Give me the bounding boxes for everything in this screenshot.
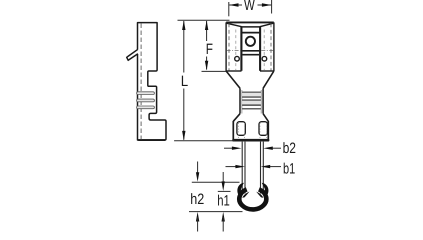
dim b2 left line and arrow: [224, 147, 233, 149]
dim L arrow up: [182, 20, 185, 30]
front view side dimple right: [262, 56, 267, 61]
front view taper right: [263, 71, 274, 88]
svg-text:F: F: [206, 41, 213, 58]
crimp ring left curl: [237, 183, 244, 197]
front view top edge: [226, 21, 274, 23]
front view side dimple left: [235, 56, 240, 61]
front view outer walls upper box: [226, 22, 274, 71]
front view inner dashed line left: [235, 30, 237, 71]
crimp ring right overlap sliver: [256, 192, 263, 198]
front view bottom edge of upper box: [226, 70, 241, 72]
front view flare bridge line 1: [241, 26, 260, 28]
side view body outline: [138, 23, 167, 140]
crimp ring left overlap sliver: [242, 192, 249, 198]
dim L bottom extension: [174, 140, 234, 142]
front view insulation box right wall: [267, 121, 269, 140]
front view dotted marks under wings: [238, 123, 266, 139]
dim W extension right: [271, 0, 273, 14]
dim h1 top stem and arrow: [222, 172, 224, 186]
svg-text:b1: b1: [283, 160, 295, 177]
front view neck wall left: [239, 88, 241, 113]
front view contact dimple circle: [246, 37, 255, 46]
dim F arrow down: [205, 61, 208, 71]
h2 top extension line: [192, 181, 240, 183]
front view insulation box left wall: [232, 121, 234, 140]
front view dashed bend line right: [270, 24, 272, 71]
front view dashed bend line left: [228, 24, 230, 71]
dim W arrow right: [262, 3, 272, 6]
front view insulation box bottom bar: [234, 139, 269, 142]
crimp ring main C: [239, 189, 266, 209]
front view taper left: [226, 71, 240, 88]
front view dash-dot centre line: [227, 50, 274, 52]
svg-text:L: L: [181, 73, 188, 90]
dim L line: [183, 21, 185, 140]
front view band line 2: [242, 54, 259, 56]
side view lance tab: [127, 49, 138, 60]
leg lines left: [242, 142, 245, 194]
front view crimp wing rect left: [237, 122, 245, 136]
front view inner dashed line right: [263, 30, 265, 71]
leg lines right: [261, 142, 264, 194]
dim b1 left line and arrow: [226, 166, 237, 168]
front view flare bridge line 2: [242, 32, 260, 34]
side view dashed bend line: [140, 24, 142, 140]
dim W extension left: [228, 2, 230, 16]
front view flare diagonals: [227, 23, 274, 27]
front view shoulder left: [233, 114, 240, 122]
side view rib 3: [137, 106, 155, 109]
bottom shared extension line: [189, 211, 243, 213]
dim b2 right arrow and leader: [263, 147, 273, 150]
side view foot bottom emphasis: [138, 139, 165, 141]
dim h2 bottom arrow and stem: [196, 212, 199, 222]
crimp ring right curl: [262, 183, 269, 197]
dim b1 right arrow and leader: [261, 165, 271, 168]
front view shoulder right: [263, 114, 268, 122]
dim W arrow left: [229, 3, 239, 6]
dim F bottom extension: [202, 70, 227, 72]
side view rib 1: [137, 92, 155, 95]
front view neck wall right: [262, 88, 264, 113]
front view inner wall left: [240, 27, 242, 71]
dim F arrow up: [205, 20, 208, 30]
side view rib 2: [137, 99, 155, 102]
dim F line: [206, 21, 208, 70]
dim W line: [229, 4, 271, 6]
dim L arrow down: [182, 131, 185, 141]
svg-text:h1: h1: [217, 193, 230, 210]
svg-text:b2: b2: [283, 140, 296, 157]
svg-text:W: W: [244, 0, 255, 14]
h1 top extension line: [218, 190, 231, 192]
svg-text:h2: h2: [190, 191, 204, 208]
front view band line 1: [242, 50, 259, 52]
front view wire barrel ribs: [242, 92, 261, 109]
front view crimp wing rect right: [259, 122, 267, 136]
top extension line for L and F: [178, 19, 230, 21]
front view inner wall right: [259, 27, 261, 71]
dim h1 bottom arrow and stem: [222, 212, 225, 222]
dim h2 top stem and arrow: [197, 162, 199, 177]
